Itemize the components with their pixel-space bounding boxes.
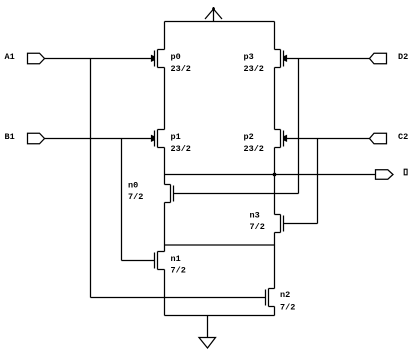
wire n3 gate: [284, 223, 318, 225]
wire C2 branch down: [317, 139, 319, 224]
transistor p1 (PMOS 23/2): [151, 130, 165, 148]
wire right column VDD to p3: [274, 22, 276, 50]
wire n1 gate: [122, 260, 155, 262]
wire right column n3 source to n2 drain: [274, 233, 276, 289]
wire B1 branch down: [121, 139, 123, 261]
svg-text:n1: n1: [171, 254, 181, 264]
node O label: [404, 169, 407, 175]
svg-text:p2: p2: [244, 132, 254, 142]
transistor p3 (PMOS 23/2): [275, 50, 288, 68]
svg-text:A1: A1: [5, 52, 15, 62]
wire n0 gate: [174, 193, 299, 195]
wire left column n1 source to ground rail: [164, 270, 166, 316]
VDD power symbol: [205, 7, 222, 22]
svg-text:n2: n2: [280, 290, 290, 300]
svg-text:7/2: 7/2: [171, 266, 186, 276]
wire right column n2 source to ground rail: [274, 307, 276, 316]
transistor p2 (PMOS 23/2): [275, 130, 288, 148]
wire D2: [287, 58, 370, 60]
svg-text:23/2: 23/2: [244, 64, 264, 74]
svg-text:D2: D2: [398, 52, 408, 62]
transistor n2 (NMOS 7/2): [266, 289, 275, 307]
transistor n0 (NMOS 7/2): [165, 185, 174, 203]
svg-text:B1: B1: [5, 132, 15, 142]
transistor n3 (NMOS 7/2): [275, 215, 284, 233]
wire left column p1 drain to n0 drain: [164, 148, 166, 185]
ground: [199, 316, 216, 349]
svg-text:23/2: 23/2: [244, 144, 264, 154]
transistor n1 (NMOS 7/2): [155, 252, 165, 270]
wire D2 branch down: [298, 59, 300, 194]
svg-text:23/2: 23/2: [171, 64, 191, 74]
wire output net: [165, 174, 376, 176]
svg-text:p0: p0: [171, 52, 181, 62]
input pin A1: [28, 53, 45, 64]
wire n2 gate: [91, 297, 266, 299]
svg-text:23/2: 23/2: [171, 144, 191, 154]
wire A1 branch down: [90, 59, 92, 298]
input pin B1: [28, 133, 45, 144]
svg-text:p1: p1: [171, 132, 181, 142]
wire B1: [45, 138, 152, 140]
svg-text:C2: C2: [398, 132, 408, 142]
wire right column p2 drain to n3 drain: [274, 148, 276, 215]
wire left column p0 drain to p1 source: [164, 22, 166, 130]
svg-text:n3: n3: [250, 210, 260, 220]
transistor p0 (PMOS 23/2): [151, 50, 165, 68]
svg-text:7/2: 7/2: [250, 222, 265, 232]
wire ground rail: [165, 315, 275, 317]
svg-text:n0: n0: [128, 180, 138, 190]
wire left column n0 source to n1 drain: [164, 203, 166, 252]
svg-text:7/2: 7/2: [280, 303, 295, 313]
wire intermediate node n0/n3 sources to n1/n2 drains: [165, 244, 275, 246]
wire VDD rail: [165, 21, 275, 23]
wire C2: [287, 138, 370, 140]
node junction dot output/right column: [273, 173, 276, 176]
output pin O: [376, 170, 394, 180]
wire A1: [45, 58, 152, 60]
svg-text:p3: p3: [244, 52, 254, 62]
svg-text:7/2: 7/2: [128, 192, 143, 202]
wire right column p3 drain to p2 source: [274, 68, 276, 130]
input pin C2: [370, 133, 387, 144]
input pin D2: [370, 53, 387, 64]
